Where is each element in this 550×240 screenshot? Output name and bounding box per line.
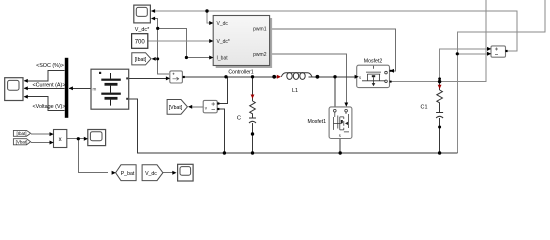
wire bus selector to scope SOC [25, 70, 65, 81]
wire 700 to controller [148, 40, 213, 42]
C branch capacitor [249, 118, 256, 123]
svg-text:C: C [237, 116, 241, 122]
junction dot product out [77, 137, 80, 140]
Mosfet2 block [357, 59, 392, 88]
battery block [91, 69, 129, 109]
wire C branch [252, 77, 254, 153]
inductor L1 [272, 73, 319, 95]
svg-text:s: s [359, 75, 361, 80]
svg-text:Mosfet2: Mosfet2 [364, 59, 383, 65]
svg-text:V_dc*: V_dc* [135, 27, 150, 33]
battery voltmeter block [203, 100, 219, 112]
controller block Controller1 [213, 16, 269, 76]
dc voltmeter block top right [487, 46, 508, 57]
Ibat goto tag upper [132, 53, 156, 65]
wire pwm1 [270, 29, 396, 71]
V_dc from tag [142, 165, 176, 181]
junction dot rail x226 [224, 75, 227, 78]
svg-text:s: s [339, 133, 341, 138]
arrow into Mosfet2 s [355, 75, 359, 79]
junction dot sensor line y28 [156, 27, 159, 30]
C branch red arrow [251, 95, 255, 99]
product block [50, 130, 67, 148]
svg-text:Mosfet1: Mosfet1 [308, 119, 327, 125]
arrow into Mosfet1 g [344, 103, 348, 107]
wire battery voltmeter minus [219, 109, 224, 153]
svg-text:V_dc: V_dc [145, 171, 157, 177]
display V_dc bottom [178, 164, 194, 181]
junction dot at Ibat goto branch [156, 57, 159, 60]
wire current sensor signal to Ibat goto / controller / display [153, 19, 213, 74]
svg-text:<SOC (%)>: <SOC (%)> [36, 63, 64, 69]
C branch resistor [250, 101, 256, 114]
junction dot I_bat wire [185, 56, 188, 59]
svg-text:[Ibat]: [Ibat] [16, 131, 26, 136]
wire main rail [183, 76, 359, 78]
wire Ibat to product [31, 133, 50, 135]
wire battery voltmeter plus [219, 77, 228, 104]
wire voltmeter out to Vbat goto [190, 106, 203, 108]
C1 branch capacitor [436, 113, 443, 119]
current sensor block [166, 71, 185, 83]
wire bus selector to scope Current [25, 87, 65, 89]
arrow into V_dc* [209, 39, 213, 43]
svg-text:[Ibat]: [Ibat] [135, 57, 147, 63]
C1 port blob [438, 126, 441, 129]
display P (bottom left) [84, 130, 106, 146]
arrow into I_bat [209, 56, 213, 60]
wire pwm2 [270, 54, 346, 104]
wire product out to display and P_bat [67, 139, 108, 173]
C1 branch resistor [437, 90, 443, 103]
bus selector [65, 58, 69, 118]
svg-text:pwm2: pwm2 [253, 52, 267, 58]
wire battery plus [129, 77, 169, 79]
svg-text:[Vbat]: [Vbat] [169, 105, 183, 111]
svg-text:<Voltage (V)>: <Voltage (V)> [33, 104, 66, 110]
svg-text:x: x [59, 137, 62, 143]
wire C1 branch [439, 82, 441, 153]
svg-text:V_dc*: V_dc* [217, 39, 230, 45]
svg-text:pwm1: pwm1 [253, 27, 267, 33]
Vbat from tag bottom [13, 139, 30, 145]
junction dot C1 top [438, 80, 441, 83]
constant 700 [132, 34, 148, 49]
Mosfet1 block [308, 107, 352, 139]
svg-text:L1: L1 [292, 88, 298, 94]
scope Scope1 left [5, 78, 28, 101]
svg-text:<Current (A)>: <Current (A)> [33, 83, 66, 89]
svg-text:I_bat: I_bat [217, 56, 229, 62]
svg-text:700: 700 [135, 39, 146, 45]
display V_dc* (top left) [134, 5, 155, 33]
wire bottom node to top right [457, 0, 545, 153]
junction dot rail x335 [333, 75, 336, 78]
wire bus selector to scope Voltage [25, 97, 65, 111]
wire bottom bus [129, 99, 458, 153]
junction dot rail x252.5 [251, 75, 254, 78]
wire V_dc feedback top [152, 11, 518, 51]
wire mosfet1 source drop [339, 138, 341, 153]
controller shadow [216, 18, 272, 68]
svg-text:m: m [93, 86, 97, 91]
C1 branch red arrow [438, 85, 442, 89]
Vbat goto tag [167, 100, 192, 115]
junction dot voltmeter minus [456, 52, 459, 55]
arrow into V_dc [209, 21, 213, 25]
arrow into Mosfet2 g [390, 69, 394, 73]
wire battery m to bus selector [69, 87, 91, 89]
svg-text:Controller1: Controller1 [228, 70, 253, 76]
svg-text:V_dc: V_dc [217, 21, 229, 27]
wire Vbat to product [31, 142, 50, 144]
junction dot on feedback at x207 [205, 9, 208, 12]
svg-text:[Vbat]: [Vbat] [16, 140, 28, 145]
C branch port blob [251, 132, 254, 135]
wire V_dc from tag to display [163, 171, 173, 173]
wire drain node up [390, 0, 491, 82]
P_bat goto tag [112, 165, 137, 181]
svg-text:P_bat: P_bat [121, 171, 135, 177]
bottom bus junction dots [223, 151, 226, 154]
Ibat from tag bottom [13, 130, 30, 136]
wire mosfet1 drain drop [334, 77, 336, 107]
svg-text:C1: C1 [421, 105, 428, 111]
